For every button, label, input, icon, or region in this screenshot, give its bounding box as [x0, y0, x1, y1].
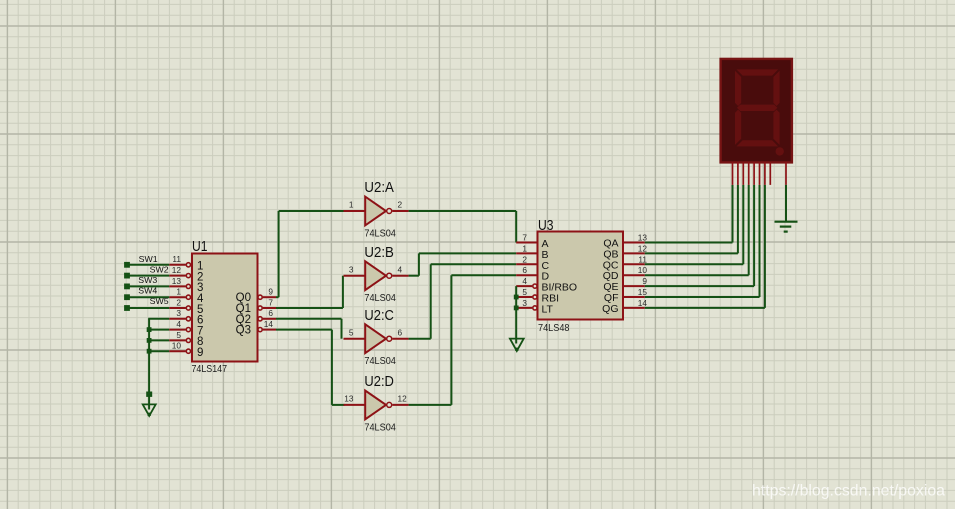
inverter U2:A output stub pin 2: [392, 210, 408, 212]
U3 pin stub 9 (QE): [623, 285, 645, 287]
svg-text:74LS04: 74LS04: [364, 355, 396, 367]
display segment D (bottom): [736, 140, 778, 146]
display pin a: [732, 162, 734, 185]
svg-text:74LS04: 74LS04: [364, 421, 396, 433]
U1 pin stub 4 (left pin 7): [169, 329, 186, 331]
U1 pin stub 9 (Q0): [263, 296, 276, 298]
U3 pin stub 12 (QB): [623, 252, 645, 254]
svg-text:74LS04: 74LS04: [364, 292, 396, 304]
ground symbol below U3: [510, 339, 524, 351]
display segment G (middle): [737, 105, 778, 111]
svg-text:9: 9: [268, 287, 273, 297]
wire U1 pin 4 to ground bus: [148, 329, 169, 331]
U1 pin stub 13 (left pin 3): [169, 285, 186, 287]
inverter U2:C output stub pin 6: [392, 338, 408, 340]
inverter U2:D input stub pin 13: [344, 404, 366, 406]
wire Q3 out horizontal: [276, 329, 332, 331]
wire vertical into U3 pin A: [515, 211, 517, 243]
U1 pin stub 5 (left pin 8): [169, 339, 186, 341]
terminal SW1 (input square): [124, 262, 130, 268]
wire Q0 vertical up: [278, 211, 280, 297]
svg-text:U2:D: U2:D: [364, 373, 394, 390]
U1 pin stub 3 (left pin 6): [169, 318, 186, 320]
wire Q2 vertical to U2:C input: [341, 319, 343, 339]
wire into U3 pin B: [419, 252, 516, 254]
wire QC to display vertical: [742, 185, 744, 264]
svg-text:1: 1: [176, 287, 181, 297]
display segment C (bottom-right): [773, 110, 779, 145]
display pin dp (unconnected): [769, 162, 771, 185]
svg-text:6: 6: [522, 265, 527, 275]
svg-text:9: 9: [642, 276, 647, 286]
svg-text:QG: QG: [602, 303, 618, 315]
IC U1 74LS147 body: [192, 254, 258, 362]
terminal SW4 (input square): [124, 294, 130, 300]
svg-text:74LS04: 74LS04: [364, 228, 396, 240]
display pin e: [753, 162, 755, 185]
svg-text:2: 2: [176, 297, 181, 307]
svg-text:4: 4: [522, 276, 527, 286]
svg-text:U3: U3: [538, 217, 554, 234]
U3 pin bubble 4: [533, 284, 537, 288]
U3 pin stub 1 (B): [516, 252, 537, 254]
display segment F (top-left): [735, 71, 741, 106]
wire U2:C output horizontal: [409, 338, 431, 340]
inverter U2:C output bubble: [387, 336, 392, 341]
svg-text:SW5: SW5: [150, 296, 169, 306]
terminal SW5 (input square): [124, 305, 130, 311]
terminal SW3 (input square): [124, 284, 130, 290]
svg-text:4: 4: [398, 264, 403, 274]
wire common to ground: [785, 185, 787, 222]
svg-text:5: 5: [349, 327, 354, 337]
U3 pin stub 6 (D): [516, 274, 537, 276]
display segment A (top): [736, 69, 778, 75]
wire U2:B vertical up: [418, 253, 420, 275]
svg-text:U2:A: U2:A: [364, 179, 394, 196]
wire Q3 to U2:D input: [332, 404, 345, 406]
svg-text:U2:C: U2:C: [364, 307, 394, 324]
wire into U3 pin C: [431, 263, 517, 265]
svg-text:SW3: SW3: [138, 275, 157, 285]
wire QF to display vertical: [759, 185, 761, 297]
display decimal point: [776, 147, 784, 155]
wire ground bus vertical: [148, 319, 150, 410]
svg-text:74LS48: 74LS48: [538, 322, 570, 334]
svg-text:11: 11: [638, 254, 647, 264]
svg-text:1: 1: [349, 200, 354, 210]
U1 pin bubble 2: [186, 306, 190, 310]
wire Q3 vertical down: [331, 330, 333, 405]
wire QF to display horizontal: [645, 296, 760, 298]
svg-text:14: 14: [264, 319, 274, 329]
U1 pin bubble 1: [186, 295, 190, 299]
wire U2:A output to U3 A: [409, 210, 517, 212]
svg-text:12: 12: [638, 243, 648, 253]
U3 pin stub 3 (LT): [516, 307, 532, 309]
inverter U2:B triangle body: [365, 261, 386, 290]
wire SW2 to U1 pin 12: [129, 275, 170, 277]
U1 pin bubble 9: [258, 295, 262, 299]
svg-text:9: 9: [197, 347, 203, 359]
wire Q1 out horizontal: [276, 307, 343, 309]
U1 pin bubble 11: [186, 263, 190, 267]
svg-text:3: 3: [176, 308, 181, 318]
U1 pin stub 11 (left pin 1): [169, 264, 186, 266]
inverter U2:C input stub pin 5: [344, 338, 366, 340]
inverter U2:D triangle body: [365, 391, 386, 420]
svg-text:4: 4: [176, 319, 181, 329]
svg-text:15: 15: [638, 287, 648, 297]
inverter U2:B input stub pin 3: [344, 275, 366, 277]
U1 pin stub 6 (Q2): [263, 318, 276, 320]
ground symbol (earth) right of display: [775, 221, 798, 223]
U3 pin stub 13 (QA): [623, 242, 645, 244]
wire QB to display horizontal: [645, 252, 738, 254]
svg-text:74LS147: 74LS147: [192, 363, 228, 375]
U3 pin bubble 3: [533, 306, 537, 310]
wire Q1 vertical to U2:B input: [342, 276, 344, 308]
wire U2:B output horizontal: [409, 275, 419, 277]
svg-text:6: 6: [398, 327, 403, 337]
U3 pin stub 7 (A): [516, 242, 537, 244]
svg-text:10: 10: [172, 341, 182, 351]
svg-text:U1: U1: [192, 238, 208, 255]
svg-text:3: 3: [522, 298, 527, 308]
7-segment display body: [721, 59, 792, 162]
wire QC to display horizontal: [645, 263, 744, 265]
inverter U2:A output bubble: [387, 209, 392, 214]
wire Q0 to U2:A input: [279, 210, 345, 212]
U1 pin stub 14 (Q3): [263, 329, 276, 331]
wire SW1 to U1 pin 11: [129, 264, 170, 266]
wire SW3 to U1 pin 13: [129, 285, 170, 287]
display pin c: [742, 162, 744, 185]
wire QG to display vertical: [764, 185, 766, 308]
wire U2:D output horizontal: [409, 404, 452, 406]
svg-text:https://blog.csdn.net/poxioa: https://blog.csdn.net/poxioa: [752, 483, 945, 500]
U3 pin stub 2 (C): [516, 263, 537, 265]
wire QA to display vertical: [732, 185, 734, 243]
junction U1 pin 9 bus: [147, 349, 152, 354]
svg-text:3: 3: [349, 264, 354, 274]
U1 pin stub 2 (left pin 5): [169, 307, 186, 309]
inverter U2:C triangle body: [365, 324, 386, 353]
wire QE to display vertical: [753, 185, 755, 286]
svg-text:7: 7: [522, 233, 527, 243]
svg-text:U2:B: U2:B: [364, 244, 394, 261]
U1 pin bubble 5: [186, 338, 190, 342]
svg-text:1: 1: [522, 243, 527, 253]
svg-text:11: 11: [172, 254, 181, 264]
U3 pin stub 5 (RBI): [516, 296, 532, 298]
U1 pin bubble 14: [258, 328, 262, 332]
U1 pin stub 1 (left pin 4): [169, 296, 186, 298]
display pin g: [764, 162, 766, 185]
svg-text:Q3: Q3: [236, 325, 251, 337]
display pin b: [737, 162, 739, 185]
svg-text:13: 13: [344, 394, 354, 404]
terminal SW2 (input square): [124, 273, 130, 279]
wire QE to display horizontal: [645, 285, 754, 287]
inverter U2:D output stub pin 12: [392, 404, 408, 406]
inverter U2:B output bubble: [387, 273, 392, 278]
svg-text:2: 2: [522, 254, 527, 264]
wire Q2 out horizontal: [276, 318, 342, 320]
svg-text:2: 2: [398, 200, 403, 210]
wire QD to display horizontal: [645, 274, 749, 276]
wire U2:D vertical up: [450, 275, 452, 405]
svg-text:6: 6: [268, 308, 273, 318]
svg-text:5: 5: [176, 330, 181, 340]
U1 pin stub 7 (Q1): [263, 307, 276, 309]
svg-text:5: 5: [522, 287, 527, 297]
node wire-end square above ground: [146, 392, 152, 397]
svg-text:13: 13: [172, 276, 182, 286]
U3 pin stub 11 (QC): [623, 263, 645, 265]
junction LT bus: [514, 306, 519, 311]
U3 pin stub 14 (QG): [623, 307, 645, 309]
ground symbol below U1: [143, 404, 156, 416]
svg-text:LT: LT: [542, 303, 554, 315]
wire into U3 pin D: [451, 274, 516, 276]
svg-text:13: 13: [638, 233, 648, 243]
U1 pin bubble 6: [258, 317, 262, 321]
svg-text:14: 14: [638, 298, 648, 308]
svg-text:12: 12: [172, 265, 182, 275]
inverter U2:B output stub pin 4: [392, 275, 408, 277]
U1 pin bubble 3: [186, 317, 190, 321]
svg-text:12: 12: [398, 394, 408, 404]
U3 pin bubble 5: [533, 295, 537, 299]
display pin common: [785, 162, 787, 185]
wire SW4 to U1 pin 1: [129, 296, 170, 298]
display pin f: [759, 162, 761, 185]
U1 pin bubble 10: [186, 349, 190, 353]
wire QD to display vertical: [748, 185, 750, 275]
svg-text:7: 7: [268, 297, 273, 307]
junction U1 pin 7 bus: [147, 327, 152, 332]
U1 pin bubble 4: [186, 328, 190, 332]
wire U1 pin 10 to ground bus: [148, 350, 169, 352]
display segment E (bottom-left): [735, 110, 741, 145]
junction U1 pin 8 bus: [147, 338, 152, 343]
wire QA to display horizontal: [645, 242, 733, 244]
U1 pin bubble 12: [186, 274, 190, 278]
wire Q0 out horizontal: [276, 296, 279, 298]
U1 pin bubble 7: [258, 306, 262, 310]
wire U3 control pins ground bus: [515, 286, 517, 343]
U1 pin stub 12 (left pin 2): [169, 275, 186, 277]
U3 pin stub 4 (BI/RBO): [516, 285, 532, 287]
IC U3 74LS48 body: [538, 232, 624, 320]
U1 pin bubble 13: [186, 284, 190, 288]
svg-text:10: 10: [638, 265, 648, 275]
junction RBI bus: [514, 295, 519, 300]
inverter U2:D output bubble: [387, 402, 392, 407]
inverter U2:A triangle body: [365, 197, 386, 226]
display pin d: [748, 162, 750, 185]
svg-text:SW1: SW1: [139, 254, 158, 264]
wire SW5 to U1 pin 2: [129, 307, 170, 309]
display segment B (top-right): [773, 71, 779, 106]
U3 pin stub 15 (QF): [623, 296, 645, 298]
wire QB to display vertical: [737, 185, 739, 254]
wire U2:C vertical up: [430, 264, 432, 338]
wire QG to display horizontal: [645, 307, 765, 309]
wire U1 pin 5 to ground bus: [148, 339, 169, 341]
U3 pin stub 10 (QD): [623, 274, 645, 276]
inverter U2:A input stub pin 1: [344, 210, 366, 212]
svg-text:SW4: SW4: [138, 286, 157, 296]
U1 pin stub 10 (left pin 9): [169, 350, 186, 352]
wire U1 pin 3 to ground bus: [148, 318, 169, 320]
svg-text:SW2: SW2: [150, 264, 169, 274]
